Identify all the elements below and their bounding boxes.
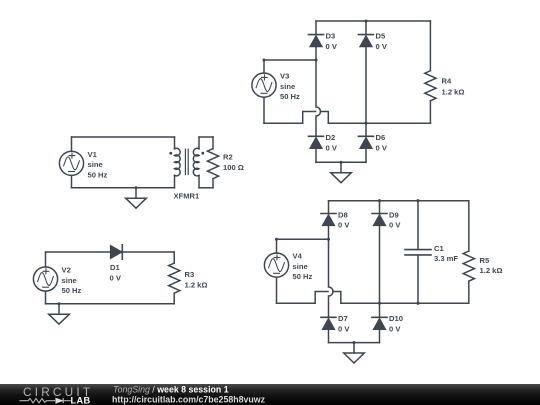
wire D6 bottom lead [365, 149, 367, 163]
svg-text:sine: sine [62, 276, 77, 285]
wire bridge2 ground bus [329, 342, 380, 344]
svg-text:50 Hz: 50 Hz [280, 92, 300, 101]
wire C1 top lead [417, 201, 419, 250]
svg-text:V2: V2 [62, 266, 71, 275]
label R3 value [185, 270, 208, 289]
ground (V2 loop) [49, 304, 70, 324]
node V4 minus junction [378, 302, 381, 305]
svg-text:0 V: 0 V [110, 274, 122, 283]
node C1 bottom junction [416, 302, 419, 305]
label D8 value [338, 210, 350, 229]
resistor R2 [207, 137, 218, 188]
wire C1 bottom lead [417, 255, 419, 303]
wire D3 top lead [315, 21, 317, 35]
wire D5 top lead [365, 21, 367, 35]
svg-text:0 V: 0 V [338, 325, 350, 334]
wire V1 top stub [71, 137, 73, 151]
label D1 value [110, 263, 122, 282]
wire D2 bottom lead [315, 149, 317, 163]
transformer XFMR1 primary winding [175, 137, 181, 188]
label R4 value [442, 77, 465, 97]
wire D5 to D6 [365, 47, 367, 136]
svg-text:0 V: 0 V [389, 325, 401, 334]
wire D8 top lead [328, 201, 330, 214]
voltage source V1 [59, 151, 83, 175]
svg-text:R2: R2 [223, 153, 233, 162]
svg-text:D2: D2 [326, 133, 336, 142]
transformer XFMR1 secondary winding [193, 137, 199, 188]
wire bridge1 top rail [316, 20, 430, 22]
svg-text:TongSing / week 8 session 1: TongSing / week 8 session 1 [113, 384, 229, 394]
wire secondary bottom [199, 187, 213, 189]
diode D1 [110, 245, 122, 259]
wire R4 bottom lead [429, 101, 431, 123]
voltage source V4 [264, 253, 288, 277]
wire bridge2 top rail [329, 200, 469, 202]
svg-text:V4: V4 [293, 252, 303, 261]
svg-text:0 V: 0 V [326, 144, 338, 153]
svg-text:50 Hz: 50 Hz [62, 286, 82, 295]
label R2 value [223, 153, 244, 172]
svg-text:1.2 kΩ: 1.2 kΩ [442, 87, 465, 96]
label V3 [280, 72, 300, 102]
label D2 value [326, 133, 338, 152]
label D6 value [376, 133, 388, 152]
label V2 [62, 266, 82, 296]
ground (bridge1) [331, 162, 352, 182]
svg-text:0 V: 0 V [376, 42, 388, 51]
label R5 value [480, 256, 503, 275]
svg-text:100 Ω: 100 Ω [223, 163, 244, 172]
node V4 top corner [275, 238, 278, 241]
node ground junction V1 [134, 186, 137, 189]
svg-text:D7: D7 [338, 314, 348, 323]
wire D9 to D10 [379, 226, 381, 317]
voltage source V3 [252, 73, 276, 97]
svg-text:0 V: 0 V [326, 42, 338, 51]
wire V3 top stub [263, 60, 265, 73]
svg-text:sine: sine [88, 160, 103, 169]
wire V4 bottom jog [277, 292, 341, 304]
wire V4 top [277, 238, 329, 240]
svg-text:LAB: LAB [71, 396, 91, 405]
label D9 value [389, 210, 401, 229]
svg-text:50 Hz: 50 Hz [293, 272, 313, 281]
svg-text:1.2 kΩ: 1.2 kΩ [480, 266, 503, 275]
wire bridge1 bottom rail [328, 122, 430, 124]
wire D7 bottom lead [328, 330, 330, 343]
node bridge2 top rail / D9 [378, 199, 381, 202]
wire D9 top lead [379, 201, 381, 214]
node V3 plus junction [314, 58, 317, 61]
diode D7 [321, 317, 336, 329]
svg-text:1.2 kΩ: 1.2 kΩ [185, 280, 208, 289]
resistor R3 [169, 252, 180, 304]
capacitor C1 [405, 250, 431, 255]
wire D3 to D2 [316, 47, 321, 136]
resistor R4 [425, 71, 436, 101]
wire R4 top lead [429, 21, 431, 71]
wire R5 top lead [468, 201, 470, 251]
svg-text:50 Hz: 50 Hz [88, 170, 108, 179]
wire V2 bottom rail [46, 303, 175, 305]
svg-text:0 V: 0 V [389, 221, 401, 230]
resistor R5 [463, 251, 474, 281]
wire V3 top [264, 59, 316, 61]
ground (bridge2) [344, 343, 365, 363]
wire V1 bottom rail [72, 187, 175, 189]
node V3 minus junction [364, 122, 367, 125]
wire V2 top stub [45, 252, 47, 267]
wire V3 bottom stub [263, 97, 265, 123]
wire V2 top rail right [122, 251, 174, 253]
node bridge1 ground junction [339, 161, 342, 164]
transformer XFMR1 secondary phase dot [201, 152, 204, 155]
svg-text:V3: V3 [280, 72, 289, 81]
CircuitLab logo schematic glyph [20, 398, 71, 403]
svg-text:C1: C1 [434, 244, 444, 253]
wire V4 bottom stub [276, 277, 278, 303]
svg-text:D3: D3 [326, 31, 336, 40]
wire V1 top rail [72, 136, 175, 138]
transformer XFMR1 primary phase dot [169, 152, 172, 155]
wire V2 top rail left [46, 251, 111, 253]
wire D8 to D7 [329, 226, 334, 317]
svg-text:R5: R5 [480, 256, 490, 265]
wire R5 bottom lead [468, 281, 470, 303]
svg-text:D8: D8 [338, 210, 348, 219]
svg-text:D6: D6 [376, 133, 386, 142]
svg-text:D10: D10 [389, 314, 403, 323]
svg-text:XFMR1: XFMR1 [174, 192, 201, 201]
ground (V1 loop) [126, 188, 147, 208]
wire V1 bottom stub [71, 175, 73, 187]
svg-text:R3: R3 [185, 270, 195, 279]
voltage source V2 [33, 267, 57, 291]
svg-text:V1: V1 [88, 150, 98, 159]
diode D9 [372, 214, 387, 226]
label V1 [88, 150, 108, 180]
node V3 top corner [262, 58, 265, 61]
node bridge1 top rail / D5 [364, 19, 367, 22]
diode D3 [309, 35, 324, 47]
node bridge2 top rail / C1 [416, 199, 419, 202]
diode D10 [372, 317, 387, 329]
node bridge2 ground junction [352, 341, 355, 344]
diode D8 [321, 214, 336, 226]
svg-text:3.3 mF: 3.3 mF [434, 254, 458, 263]
wire bridge2 bottom rail [341, 302, 469, 304]
wire bridge1 ground bus [316, 161, 366, 163]
svg-text:0 V: 0 V [338, 221, 350, 230]
wire V3 bottom jog [264, 112, 328, 124]
svg-text:sine: sine [280, 82, 295, 91]
svg-text:D9: D9 [389, 210, 399, 219]
wire V4 top stub [276, 239, 278, 253]
wire D10 bottom lead [379, 330, 381, 343]
label D5 value [376, 31, 388, 50]
svg-text:D1: D1 [110, 263, 120, 272]
transformer XFMR1 core [185, 149, 188, 174]
diode D6 [359, 136, 374, 148]
label D10 value [389, 314, 403, 333]
label V4 [293, 252, 313, 282]
diode D5 [359, 35, 374, 47]
label C1 value [434, 244, 458, 263]
diode D2 [309, 136, 324, 148]
svg-text:D5: D5 [376, 31, 386, 40]
svg-text:sine: sine [293, 262, 308, 271]
label D3 value [326, 31, 338, 50]
node ground junction V2 [57, 302, 60, 305]
label D7 value [338, 314, 350, 333]
svg-text:0 V: 0 V [376, 144, 388, 153]
node V4 plus junction [327, 238, 330, 241]
wire secondary top [199, 136, 213, 138]
svg-text:R4: R4 [442, 77, 452, 86]
svg-text:http://circuitlab.com/c7be258h: http://circuitlab.com/c7be258h8vuwz [112, 394, 266, 404]
wire V2 bottom stub [45, 291, 47, 304]
